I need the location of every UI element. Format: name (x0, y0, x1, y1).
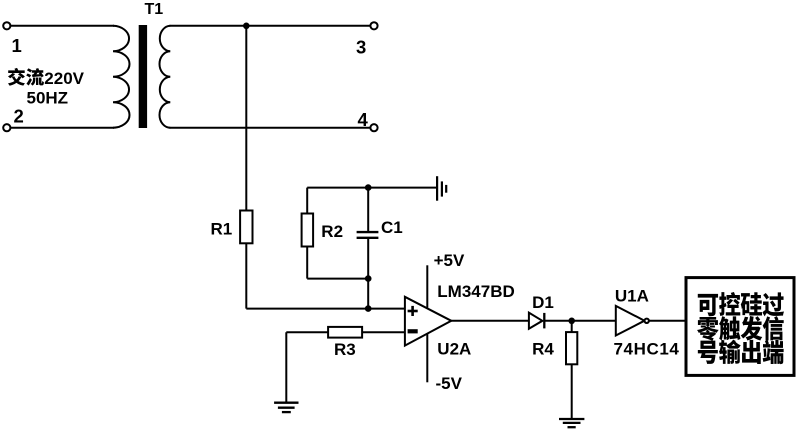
wire top rail to R2 (306, 188, 308, 214)
wire op-amp output to D1 (451, 320, 529, 322)
terminal pin 1 (3, 22, 10, 29)
wire to op-amp non-inverting input (246, 308, 405, 310)
label AC 220V (8, 68, 25, 86)
terminal pin 3 (370, 22, 377, 29)
svg-text:2: 2 (14, 105, 24, 126)
wire junction to R4 (571, 321, 573, 332)
op-amp U2A (405, 297, 451, 346)
wire op-amp to -5V (426, 334, 428, 382)
wire inverting input through R3 (286, 331, 405, 333)
svg-text:R3: R3 (334, 340, 356, 359)
svg-text:1: 1 (12, 35, 22, 56)
inverter U1A (616, 306, 645, 336)
wire bottom rail R2 to C1 (307, 278, 368, 280)
wire inverter to output box (649, 320, 686, 322)
svg-text:R2: R2 (321, 222, 343, 241)
wire pin 1 to primary top (10, 25, 114, 27)
wire C1 top lead (367, 188, 369, 232)
wire R3 down to ground (285, 332, 287, 402)
svg-text:+5V: +5V (434, 251, 465, 270)
output terminal box (686, 278, 794, 376)
transformer T1 core (139, 25, 147, 128)
wire C1 bottom lead down to input line (367, 239, 369, 309)
wire +5V to op-amp (426, 265, 428, 307)
svg-text:3: 3 (356, 36, 366, 57)
label output box line 3 (698, 340, 784, 364)
wire secondary bottom to terminal 4 (170, 127, 371, 129)
wire R2 to bottom rail (306, 247, 308, 279)
svg-text:R1: R1 (211, 219, 233, 238)
resistor R4 (566, 332, 577, 364)
svg-text:220V: 220V (44, 69, 84, 88)
junction C1 top (365, 184, 372, 191)
wire pin 2 to primary bottom (10, 127, 114, 129)
terminal pin 4 (370, 124, 377, 131)
junction C1 bottom on input line (365, 305, 372, 312)
ground (sideways) at top rail (437, 176, 446, 201)
wire R1 to non-inverting input line (245, 243, 247, 308)
svg-text:50HZ: 50HZ (27, 88, 69, 107)
junction at secondary top / R1 (243, 23, 250, 30)
resistor R3 (328, 327, 362, 338)
wire R4 down to ground (571, 364, 573, 419)
wire top rail R2 to ground (307, 187, 436, 189)
svg-text:D1: D1 (532, 293, 554, 312)
svg-text:T1: T1 (145, 1, 164, 18)
wire D1 to inverter U1A (544, 320, 616, 322)
transformer T1 primary winding (113, 26, 130, 128)
diode D1 cathode bar (543, 313, 545, 329)
wire secondary top to terminal 3 (170, 25, 371, 27)
svg-text:LM347BD: LM347BD (437, 282, 514, 301)
terminal pin 2 (3, 124, 10, 131)
transformer T1 secondary winding (160, 26, 171, 128)
svg-text:U2A: U2A (437, 339, 471, 358)
ground below R3 (274, 403, 298, 412)
junction C1 bottom rail (365, 275, 372, 282)
ground below R4 (559, 419, 584, 427)
svg-text:U1A: U1A (615, 287, 649, 306)
label output box line 1 (SCR zero-crossing) (698, 292, 784, 316)
svg-text:-5V: -5V (436, 374, 463, 393)
op-amp plus input marker (408, 306, 418, 316)
junction R4 tap (568, 318, 575, 325)
diode D1 (529, 313, 543, 329)
svg-text:C1: C1 (381, 218, 403, 237)
wire secondary tap down to R1 (245, 26, 247, 211)
label output box line 2 (697, 316, 784, 341)
svg-text:4: 4 (358, 109, 369, 130)
inverter U1A output bubble (645, 319, 649, 323)
svg-text:R4: R4 (532, 339, 554, 358)
capacitor C1 (357, 232, 379, 238)
op-amp minus input marker (408, 329, 418, 333)
resistor R2 (302, 214, 314, 247)
resistor R1 (240, 211, 252, 244)
svg-text:74HC14: 74HC14 (614, 340, 680, 359)
